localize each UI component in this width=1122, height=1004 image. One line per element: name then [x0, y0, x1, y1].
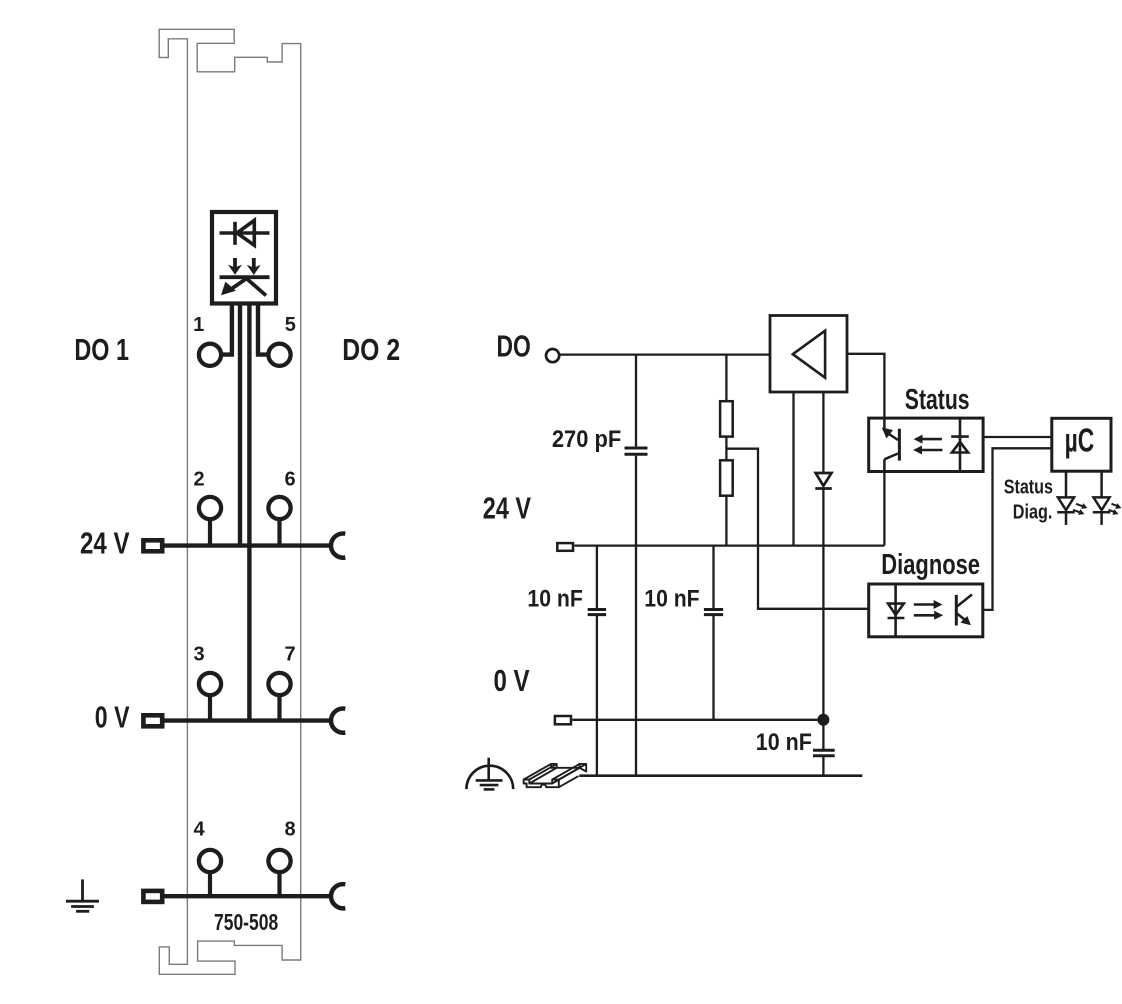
wire earth rail: [579, 774, 862, 777]
wire 24V row: [164, 543, 332, 547]
svg-text:Status: Status: [905, 384, 970, 416]
pin 7 contact: [268, 673, 290, 695]
svg-text:750-508: 750-508: [214, 909, 278, 935]
terminal 0V schematic: [555, 716, 571, 724]
wire 24V rail to C2: [596, 546, 598, 609]
svg-text:µC: µC: [1065, 422, 1095, 459]
terminal 0V module: [143, 715, 162, 726]
pin 2 contact: [199, 497, 221, 519]
wire amplifier to 24V rail: [792, 392, 794, 546]
svg-text:10 nF: 10 nF: [527, 586, 582, 613]
earth ground symbol schematic: [466, 758, 513, 790]
wire pin 2 to 24V row: [208, 521, 212, 546]
LED D3 in U3: [951, 419, 969, 471]
wire 24V rail to C3: [712, 546, 714, 609]
wire pin 8 to earth row: [277, 874, 281, 896]
microcontroller U4 box: [1052, 418, 1111, 471]
bus contact earth row: [331, 884, 345, 908]
wire pin 7 to 0V row: [277, 697, 281, 721]
pin 5 contact: [268, 344, 290, 366]
wire DO to amplifier: [559, 353, 770, 355]
wire amplifier output to Status optocoupler: [847, 354, 884, 418]
wire 0V row: [164, 718, 332, 722]
wire Status emitter to 24V rail: [883, 472, 885, 546]
wire 0V node to C4: [822, 720, 824, 749]
svg-text:0 V: 0 V: [494, 663, 530, 698]
amplifier U2 triangle: [793, 331, 825, 378]
wire C2 to earth rail: [596, 616, 598, 776]
wire U1 to 0V row: [247, 306, 251, 721]
svg-text:10 nF: 10 nF: [756, 729, 812, 756]
Diagnose optocoupler U5 box: [869, 584, 983, 637]
diode D1 in U1: [220, 220, 270, 245]
capacitor C1 270pF: [625, 448, 648, 454]
svg-text:10 nF: 10 nF: [644, 586, 699, 613]
wire U1 to pin 1: [223, 306, 232, 355]
wire R1/R2 junction to Diagnose optocoupler: [726, 449, 868, 609]
surge suppressor symbol in U1: [220, 258, 270, 296]
terminal 24V module: [143, 540, 162, 551]
wire D2 to 0V node: [822, 489, 824, 720]
Status optocoupler U3 box: [869, 418, 983, 471]
svg-text:7: 7: [284, 644, 295, 666]
junction dot 0V node: [817, 714, 829, 726]
wire amplifier to diode D2: [822, 392, 824, 473]
svg-text:24 V: 24 V: [80, 526, 130, 561]
svg-text:2: 2: [193, 469, 204, 491]
LED Status indicator: [1057, 471, 1075, 525]
wire U1 to pin 5: [258, 306, 267, 355]
phototransistor Q2 in U5: [956, 595, 972, 626]
capacitor C2 10nF: [588, 610, 606, 615]
pin 6 contact: [268, 497, 290, 519]
pin 8 contact: [268, 850, 290, 872]
pin 3 contact: [199, 673, 221, 695]
node DO terminal: [546, 349, 559, 362]
LED Diag indicator: [1093, 471, 1111, 525]
svg-text:3: 3: [193, 644, 204, 666]
bus contact 0V row: [331, 708, 345, 732]
wire R2 to 24V rail: [725, 496, 727, 546]
pin 1 contact: [199, 344, 221, 366]
ground symbol module: [66, 879, 99, 911]
svg-text:4: 4: [193, 819, 205, 841]
svg-text:DO 1: DO 1: [74, 332, 129, 367]
capacitor C4 10nF: [813, 750, 835, 756]
LED D4 in U5: [888, 585, 905, 636]
bus contact 24V row: [331, 534, 345, 558]
wire 24V rail: [574, 544, 884, 546]
emission arrows Status LED: [1073, 504, 1084, 513]
output stage box U1: [212, 212, 276, 304]
svg-text:Status: Status: [1004, 476, 1053, 498]
resistor R1: [720, 401, 733, 436]
capacitor C3 10nF: [704, 610, 723, 615]
wire DO branch to C1: [635, 355, 637, 447]
light arrows U5: [914, 605, 935, 616]
wire earth row: [163, 894, 332, 898]
terminal earth module: [143, 891, 162, 902]
wire DO branch to R1: [725, 355, 727, 402]
svg-text:0 V: 0 V: [95, 699, 130, 734]
svg-text:DO: DO: [497, 329, 531, 364]
svg-text:1: 1: [193, 314, 204, 336]
diode D2: [816, 473, 832, 486]
wire C3 to 0V rail: [712, 616, 714, 720]
wire C4 to earth rail: [822, 756, 824, 776]
wire pin 4 to earth row: [208, 874, 212, 896]
svg-text:5: 5: [285, 314, 296, 336]
light arrows U3: [922, 439, 943, 450]
phototransistor Q1 in U3: [884, 419, 899, 471]
module outline 750-508 housing: [159, 29, 301, 974]
terminal 24V schematic: [557, 543, 573, 551]
svg-text:270 pF: 270 pF: [552, 426, 621, 453]
svg-text:Diag.: Diag.: [1013, 501, 1053, 523]
svg-text:24 V: 24 V: [483, 490, 531, 525]
svg-text:Diagnose: Diagnose: [881, 549, 980, 581]
pin 4 contact: [199, 850, 221, 872]
svg-text:8: 8: [284, 819, 295, 841]
wire R1 to R2: [725, 437, 727, 461]
wire pin 6 to 24V row: [277, 521, 281, 546]
wire 0V rail: [572, 719, 823, 721]
wire U3 to uC: [983, 436, 1052, 438]
wire uC to Diagnose optocoupler: [983, 448, 1052, 610]
amplifier U2 box: [770, 316, 847, 393]
resistor R2: [720, 460, 733, 495]
wire pin 3 to 0V row: [208, 697, 212, 721]
wire C1 to earth rail: [635, 456, 637, 776]
svg-text:DO 2: DO 2: [342, 332, 400, 367]
DIN rail icon: [524, 764, 587, 787]
svg-text:6: 6: [284, 469, 295, 491]
emission arrows Diag LED: [1109, 504, 1120, 513]
wire U1 to 24V row: [238, 306, 242, 546]
